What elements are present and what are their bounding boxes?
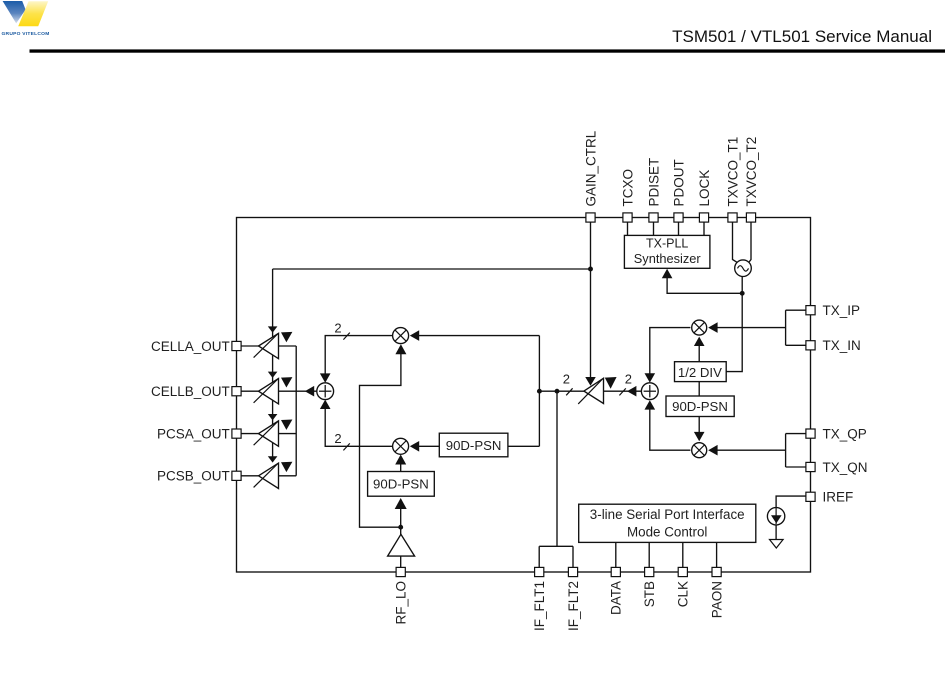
oscillator TXVCO symbol xyxy=(735,260,752,277)
wire CELLA_OUT amp input from bus xyxy=(279,345,297,347)
wire IF to upconverter I mixer xyxy=(417,335,540,337)
block TX-PLL Synthesizer U-PLL xyxy=(624,235,710,268)
wire TX_QP pin to input bracket xyxy=(786,433,806,435)
pin PDISET xyxy=(649,213,658,222)
pin RF_LO xyxy=(396,567,405,576)
wire current source to ground xyxy=(775,525,777,540)
bus width slash on IF bus right of attenuator xyxy=(619,388,625,395)
arrow into left summer from Q mixer xyxy=(320,400,331,409)
pin CLK xyxy=(678,567,687,576)
wire IF filter tap vertical xyxy=(556,391,558,546)
variable amplifier A4 gain control arrowhead xyxy=(268,456,278,462)
pin TX_QP xyxy=(806,429,815,438)
variable amplifier A3 gain slash xyxy=(254,421,278,445)
wire I mixer output to right summer xyxy=(650,328,691,376)
wire left 90D-PSN output to Q upconverter mixer xyxy=(400,463,402,472)
variable amplifier A4 slash arrowhead xyxy=(281,462,292,472)
variable amplifier A4 gain slash xyxy=(254,464,278,488)
svg-text:TSM501 / VTL501 Service Manual: TSM501 / VTL501 Service Manual xyxy=(672,27,932,46)
summer left circle xyxy=(317,383,334,400)
arrow into right summer from I mixer xyxy=(645,373,656,382)
arrow into I tx mixer from bracket xyxy=(708,322,717,333)
arrow into Q upconverter mixer LO port xyxy=(395,455,406,465)
wire CELLB_OUT amp output to pin xyxy=(241,390,259,392)
summer right circle xyxy=(641,383,658,400)
pin LOCK xyxy=(699,213,708,222)
IC outer boundary box xyxy=(237,218,811,573)
wire oscillator output down to junction and 1/2 DIV input xyxy=(726,277,742,372)
arrow into I tx mixer from divider xyxy=(694,337,705,346)
pin PCSA_OUT xyxy=(232,429,241,438)
wire PCSB_OUT amp output to pin xyxy=(241,475,259,477)
pin PAON xyxy=(712,567,721,576)
wire 1/2 DIV output up to I mixer xyxy=(698,346,700,362)
variable amplifier A2 slash arrowhead xyxy=(281,377,292,387)
svg-text:Synthesizer: Synthesizer xyxy=(634,251,702,266)
wire TCXO pin to TX-PLL synthesizer xyxy=(627,218,629,236)
arrow from left summer into amp bus xyxy=(305,386,314,397)
variable attenuator A5 slash arrowhead xyxy=(605,377,617,389)
current source I1 arrowhead xyxy=(771,515,782,523)
wire PDOUT pin to TX-PLL synthesizer xyxy=(678,218,680,236)
wire PCSA_OUT amp input from bus xyxy=(279,433,297,435)
bus width slash on IF bus left of attenuator xyxy=(566,388,572,395)
svg-text:PDISET: PDISET xyxy=(646,158,661,207)
wire I upconverter mixer output to left summer xyxy=(325,336,392,374)
svg-text:STB: STB xyxy=(642,581,657,607)
svg-text:TX_IP: TX_IP xyxy=(823,303,861,318)
pin TXVCO_T2 xyxy=(746,213,755,222)
wire TX_IP pin to input bracket xyxy=(786,309,806,311)
block middle 90D-PSN phase shifter xyxy=(439,433,508,457)
wire GAIN_CTRL vertical from pin to variable attenuator xyxy=(590,218,592,378)
arrow into right summer from Q mixer xyxy=(645,400,656,409)
wire middle 90D-PSN output to Q upconverter mixer xyxy=(417,445,440,447)
svg-text:Mode Control: Mode Control xyxy=(627,524,707,539)
svg-text:TX_QP: TX_QP xyxy=(823,426,867,441)
mixer I upconvert circle xyxy=(393,328,409,344)
svg-text:CELLB_OUT: CELLB_OUT xyxy=(151,384,230,399)
wire Q upconverter mixer output to left summer xyxy=(325,408,392,447)
svg-text:2: 2 xyxy=(563,372,570,387)
arrow into Q upconverter mixer from 90D-PSN xyxy=(410,441,419,452)
wire TXVCO_T2 pin down to oscillator xyxy=(749,218,751,263)
junction IF bus at filter tap xyxy=(555,389,560,394)
svg-text:RF_LO: RF_LO xyxy=(394,581,409,625)
pin STB xyxy=(645,567,654,576)
svg-text:TX_IN: TX_IN xyxy=(823,338,861,353)
wire TX I bracket vertical xyxy=(785,310,787,345)
pin TX_QN xyxy=(806,462,815,471)
summer left plus glyph xyxy=(319,390,331,392)
wire CELLA_OUT amp output to pin xyxy=(241,345,259,347)
wire IF_FLT2 stub xyxy=(572,546,574,572)
block right 90D-PSN phase shifter xyxy=(666,396,734,417)
arrow on IF bus toward attenuator xyxy=(627,386,636,397)
wire CELLB_OUT amp input from bus xyxy=(279,390,297,392)
header rule xyxy=(30,49,945,52)
svg-text:DATA: DATA xyxy=(609,581,624,615)
svg-text:PDOUT: PDOUT xyxy=(671,159,686,206)
pin TX_IN xyxy=(806,341,815,350)
logo GRUPO VITELCOM yellow V stroke xyxy=(18,1,48,26)
bus width slash on I upconvert wire xyxy=(343,333,349,340)
arrow into I upconverter mixer LO port xyxy=(395,344,406,354)
variable amplifier A4 (PCSB_OUT) triangle xyxy=(259,463,279,488)
pin CELLA_OUT xyxy=(232,341,241,350)
svg-text:2: 2 xyxy=(625,372,632,387)
variable amplifier A3 (PCSA_OUT) triangle xyxy=(259,421,279,446)
wire TX_IN pin to input bracket xyxy=(786,344,806,346)
wire PCSA_OUT amp output to pin xyxy=(241,433,259,435)
wire TX Q bracket to Q mixer xyxy=(718,449,786,451)
svg-text:GAIN_CTRL: GAIN_CTRL xyxy=(583,130,598,206)
variable amplifier A1 (CELLA_OUT) triangle xyxy=(259,333,279,358)
pin IREF xyxy=(806,492,815,501)
wire gain chain vertical feeding output amplifiers xyxy=(272,269,274,457)
buffer amplifier A6 (RF_LO) triangle xyxy=(388,534,415,556)
svg-text:PCSB_OUT: PCSB_OUT xyxy=(157,469,230,484)
variable amplifier A1 slash arrowhead xyxy=(281,332,292,342)
wire LOCK pin to TX-PLL synthesizer xyxy=(703,218,705,236)
wire IF to middle 90D-PSN input xyxy=(508,445,540,447)
wire output amplifier input bus vertical xyxy=(295,346,297,476)
wire serial interface to CLK pin xyxy=(682,542,684,572)
pin PCSB_OUT xyxy=(232,471,241,480)
junction GAIN_CTRL branch xyxy=(588,267,593,272)
svg-text:2: 2 xyxy=(334,321,341,336)
ground symbol below current source xyxy=(770,540,784,549)
svg-text:2: 2 xyxy=(334,431,341,446)
svg-text:PAON: PAON xyxy=(709,581,724,618)
wire TXVCO_T1 pin down to oscillator xyxy=(733,218,738,263)
svg-text:IF_FLT2: IF_FLT2 xyxy=(566,581,581,631)
wire GAIN_CTRL horizontal distribution to output amps xyxy=(273,268,591,270)
arrow into I upconverter mixer from IF xyxy=(410,330,419,341)
wire serial interface to STB pin xyxy=(648,542,650,572)
junction IF bus at upconverter split xyxy=(537,389,542,394)
wire IF node vertical split xyxy=(538,336,540,447)
svg-text:LOCK: LOCK xyxy=(697,170,712,207)
variable amplifier A2 gain control arrowhead xyxy=(268,372,278,378)
wire buffer amp to LO junction xyxy=(400,527,402,534)
svg-text:90D-PSN: 90D-PSN xyxy=(373,477,429,492)
pin TX_IP xyxy=(806,306,815,315)
mixer Q tx X glyph xyxy=(694,445,705,456)
svg-text:TX-PLL: TX-PLL xyxy=(646,236,688,250)
wire IREF pin to current source xyxy=(776,496,806,507)
svg-text:90D-PSN: 90D-PSN xyxy=(672,399,728,414)
svg-text:3-line Serial Port Interface: 3-line Serial Port Interface xyxy=(590,507,745,522)
summer right plus glyph xyxy=(644,390,656,392)
svg-text:CLK: CLK xyxy=(676,581,691,607)
wire IF filter bracket horizontal xyxy=(539,545,573,547)
variable amplifier A3 gain control arrowhead xyxy=(268,414,278,420)
pin CELLB_OUT xyxy=(232,387,241,396)
wire serial interface to PAON pin xyxy=(716,542,718,572)
svg-text:TX_QN: TX_QN xyxy=(823,460,868,475)
variable amplifier A1 gain control arrowhead xyxy=(268,326,278,332)
svg-text:90D-PSN: 90D-PSN xyxy=(446,438,502,453)
block 3-line Serial Port Interface Mode Control xyxy=(579,504,756,542)
svg-text:GRUPO VITELCOM: GRUPO VITELCOM xyxy=(2,31,50,37)
variable amplifier A2 (CELLB_OUT) triangle xyxy=(259,379,279,404)
arrow into Q tx mixer from 90D-PSN xyxy=(694,432,705,441)
bus width slash on Q upconvert wire xyxy=(343,443,349,450)
pin PDOUT xyxy=(674,213,683,222)
current source I1 circle xyxy=(767,508,784,525)
pin IF_FLT2 xyxy=(568,567,577,576)
wire right summer output to variable attenuator xyxy=(604,390,642,392)
wire 1/2 DIV down to right 90D-PSN xyxy=(698,382,700,396)
wire RF_LO pin to buffer amp xyxy=(400,556,402,572)
wire left summer output to output amplifier bus xyxy=(296,390,317,392)
wire TX_QN pin to input bracket xyxy=(786,466,806,468)
svg-text:TCXO: TCXO xyxy=(620,169,635,207)
pin TXVCO_T1 xyxy=(728,213,737,222)
junction oscillator to PLL/divider xyxy=(740,291,745,296)
mixer I tx circle xyxy=(692,320,707,335)
variable amplifier A2 gain slash xyxy=(254,379,278,403)
logo GRUPO VITELCOM blue V stroke xyxy=(3,1,26,23)
mixer I tx X glyph xyxy=(694,322,705,333)
svg-text:PCSA_OUT: PCSA_OUT xyxy=(157,426,230,441)
wire right 90D-PSN output down to Q mixer xyxy=(698,417,700,433)
arrow into TX-PLL synthesizer xyxy=(662,269,673,278)
junction RF_LO splitter xyxy=(398,525,403,530)
block left 90D-PSN phase shifter xyxy=(368,472,435,497)
svg-text:TXVCO_T1: TXVCO_T1 xyxy=(725,137,740,207)
wire junction to TX-PLL synthesizer input xyxy=(667,277,742,293)
svg-text:IF_FLT1: IF_FLT1 xyxy=(532,581,547,631)
variable attenuator A5 triangle xyxy=(584,378,604,403)
wire IF_FLT1 stub xyxy=(538,546,540,572)
wire TX Q bracket vertical xyxy=(785,434,787,467)
mixer Q upconvert X glyph xyxy=(395,441,406,452)
variable attenuator A5 gain slash xyxy=(578,380,602,404)
pin GAIN_CTRL xyxy=(586,213,595,222)
arrow into left summer from I mixer xyxy=(320,373,331,382)
wire serial interface to DATA pin xyxy=(615,542,617,572)
mixer Q upconvert circle xyxy=(393,438,409,454)
wire Q mixer output to right summer xyxy=(650,407,691,450)
variable attenuator A5 gain control arrowhead xyxy=(585,377,596,386)
mixer Q tx circle xyxy=(692,443,707,458)
arrow into left 90D-PSN from RF_LO xyxy=(395,498,407,509)
pin DATA xyxy=(611,567,620,576)
oscillator sine glyph xyxy=(738,266,749,271)
svg-text:TXVCO_T2: TXVCO_T2 xyxy=(744,137,759,207)
svg-text:CELLA_OUT: CELLA_OUT xyxy=(151,339,230,354)
wire PCSB_OUT amp input from bus xyxy=(279,475,297,477)
current source I1 arrow line xyxy=(775,508,777,525)
variable amplifier A3 slash arrowhead xyxy=(281,420,292,430)
wire IF bus attenuator to IF filter taps xyxy=(539,390,584,392)
mixer I upconvert X glyph xyxy=(395,330,406,341)
wire PDISET pin to TX-PLL synthesizer xyxy=(653,218,655,236)
svg-text:1/2 DIV: 1/2 DIV xyxy=(678,365,722,380)
block 1/2 DIV divider xyxy=(675,362,727,382)
variable amplifier A1 gain slash xyxy=(254,334,278,358)
pin IF_FLT1 xyxy=(535,567,544,576)
wire LO junction up to left 90D-PSN xyxy=(400,507,402,527)
wire TX I bracket to I mixer xyxy=(718,327,786,329)
arrow into Q tx mixer from bracket xyxy=(708,445,717,456)
wire LO junction around to I upconverter mixer xyxy=(360,354,401,528)
pin TCXO xyxy=(623,213,632,222)
svg-text:IREF: IREF xyxy=(823,490,854,505)
